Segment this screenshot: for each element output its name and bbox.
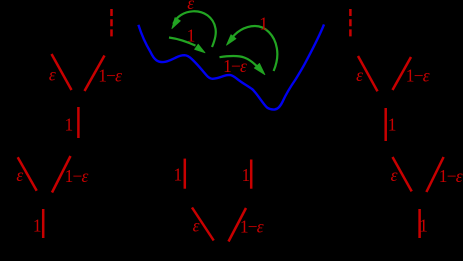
svg-text:1: 1 — [259, 14, 268, 34]
svg-text:ε: ε — [391, 165, 398, 185]
green arrowhead of arc A — [172, 18, 181, 29]
svg-text:1−ε: 1−ε — [406, 65, 430, 85]
svg-text:1: 1 — [65, 115, 74, 135]
green arrowhead of arrow B — [195, 44, 205, 53]
svg-text:1−ε: 1−ε — [223, 56, 247, 76]
svg-text:ε: ε — [16, 165, 23, 185]
svg-text:ε: ε — [356, 65, 363, 85]
svg-text:1: 1 — [242, 165, 251, 185]
tree L 1 edge — [77, 107, 80, 138]
svg-text:1: 1 — [33, 216, 42, 236]
green arc C (1 loop, right) — [231, 26, 278, 71]
tree B right 1 edge — [250, 160, 253, 189]
tree R2 1 edge — [418, 209, 421, 238]
green arrowhead of arc C — [227, 35, 237, 46]
svg-text:1−ε: 1−ε — [240, 217, 264, 237]
tree L2 epsilon branch — [18, 157, 37, 190]
tree B left 1 edge — [184, 159, 187, 189]
tree B epsilon branch — [192, 208, 214, 241]
blue potential curve — [138, 24, 324, 109]
svg-text:1: 1 — [419, 215, 428, 235]
dashed edge above tree L — [110, 9, 113, 37]
tree B 1-epsilon branch — [229, 208, 247, 242]
svg-text:1: 1 — [174, 165, 183, 185]
tree L 1-epsilon branch — [85, 56, 105, 92]
tree R2 epsilon branch — [393, 157, 412, 191]
svg-text:1: 1 — [187, 26, 196, 46]
svg-text:1−ε: 1−ε — [439, 166, 463, 186]
green arrow D (1-epsilon, into deep well) — [220, 56, 257, 66]
svg-text:1−ε: 1−ε — [65, 166, 89, 186]
tree R 1 edge — [384, 108, 387, 141]
tree L2 1 edge — [42, 209, 45, 238]
green arrow B (1, left-to-right short arc) — [169, 38, 196, 46]
tree L epsilon branch — [52, 54, 72, 90]
svg-text:ε: ε — [187, 0, 194, 13]
tree R epsilon branch — [358, 56, 378, 91]
tree R 1-epsilon branch — [393, 57, 412, 90]
dashed edge above tree R — [349, 9, 352, 37]
svg-text:ε: ε — [49, 64, 56, 84]
tree R2 1-epsilon branch — [426, 157, 443, 192]
green arrowhead of arrow D — [254, 63, 265, 74]
svg-text:1: 1 — [388, 115, 397, 135]
tree L2 1-epsilon branch — [52, 156, 71, 193]
green arc A (epsilon loop, left) — [173, 11, 216, 47]
svg-text:ε: ε — [193, 216, 200, 236]
svg-text:1−ε: 1−ε — [98, 66, 122, 86]
